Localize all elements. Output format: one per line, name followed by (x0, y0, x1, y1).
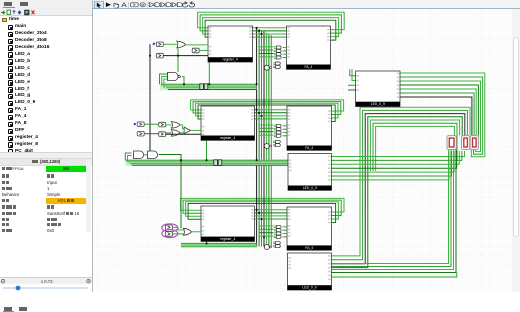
buffer U11 group2 (184, 127, 190, 134)
wire bundle: feedback loop group1 (FA_4 out back to register_4 in) (198, 12, 345, 40)
left project panel (0, 0, 93, 292)
wire bundle: feedback loop group3 (181, 198, 344, 222)
svg-text:register_4: register_4 (220, 237, 235, 241)
register R2 (201, 106, 255, 140)
OR gate U7 group1 (177, 41, 186, 48)
wire junctions (149, 27, 265, 244)
wire: AND chain output down to group3 (159, 155, 181, 229)
svg-text:FA_4: FA_4 (305, 146, 313, 150)
gate cluster group3 at FA inputs (273, 225, 286, 247)
wire: register R3 bottom to ribbon group3 (206, 241, 208, 243)
seven segment display DS3 (470, 136, 478, 150)
input pin P4b group2 outer (137, 131, 144, 136)
wire: outer pins to inner pins group2 (144, 124, 159, 134)
input pin P3 group1 with wire (192, 48, 208, 53)
AND gate U13 group2 (148, 151, 158, 159)
wire ribbon bus group2 (125, 153, 288, 166)
input pin P4 group2 (134, 122, 166, 127)
wire: pin P2 to register R1 (black) (163, 55, 208, 57)
svg-text:FA_4: FA_4 (305, 65, 313, 69)
schematic canvas (93, 9, 512, 292)
svg-text:register_4: register_4 (223, 58, 238, 62)
wires group2 gates (166, 125, 201, 134)
AND gate below cluster group2 (264, 144, 271, 149)
OR gate U14 group3 (183, 228, 191, 235)
wire: register R3 outputs to FA U6 inputs (255, 210, 288, 219)
NAND gate U8 group1 (168, 72, 181, 80)
wire: U12 to U13 (144, 154, 148, 156)
seven segment display DS1 (447, 136, 456, 150)
input pin P1 group1 (153, 42, 164, 47)
LED decoder U3 LED_0_9 (288, 253, 332, 290)
wire: cluster feeds group1 (259, 47, 274, 57)
register R3 (201, 206, 255, 241)
selected pin P7 group3 (purple halo) (162, 230, 178, 238)
wires group3 gates (172, 227, 201, 234)
wire: NAND U8 output to ribbon (182, 77, 184, 85)
svg-text:FA_4: FA_4 (305, 246, 313, 250)
svg-text:A: A (121, 1, 127, 9)
input pin P4a group2 outer (137, 122, 144, 127)
svg-text:LED_0_9: LED_0_9 (371, 102, 385, 106)
LED decoder U2 LED_0_9 (288, 154, 332, 191)
XOR gate U9 group2 (171, 122, 180, 129)
full adder U4 FA_4 (287, 26, 331, 69)
wire: LED U1 outputs to displays (400, 73, 485, 157)
gate cluster group2 at FA inputs (273, 124, 286, 146)
splitter S2 on ribbon group2 (214, 160, 222, 166)
input pin P2 group1 (156, 53, 163, 58)
svg-text:LED_0_9: LED_0_9 (302, 286, 316, 290)
wire: register R1 outputs to FA U4 inputs (253, 28, 287, 37)
svg-text:register_4: register_4 (220, 136, 235, 140)
wire: FA U4 to LED U1 inputs (348, 69, 356, 90)
wire: cluster feeds group2 (259, 125, 274, 135)
wire: cluster feeds group3 (259, 226, 274, 236)
XOR gate U10 group2 (171, 130, 180, 137)
wire: OR U7 output to register R1 (186, 44, 209, 46)
LED decoder U1 LED_0_9 (356, 71, 400, 107)
wire: register R2 outputs to FA U5 inputs (255, 110, 288, 119)
wire bundle: vertical bus column (257, 28, 272, 247)
wire ribbon bus group1 (160, 74, 257, 90)
wire ribbon bus group3 (181, 243, 257, 248)
full adder U5 FA_4 (287, 106, 332, 150)
canvas toolbar (93, 0, 520, 9)
wire: pin P1 to OR gate (163, 43, 177, 45)
selected pin P6 group3 (purple halo) (162, 224, 178, 232)
gate cluster group1 at FA inputs (273, 46, 286, 68)
input pin P5 group2 (159, 132, 166, 137)
wire bundle: feedback loop group2 (191, 100, 344, 122)
full adder U6 FA_4 (287, 207, 332, 250)
wire: vertical link group1 to group2 (149, 44, 151, 151)
AND gate below cluster group1 (264, 65, 271, 70)
wire: register R2 bottom to ribbon group2 (206, 140, 208, 160)
wire bundle: right vertical bus V2 with corners to displays (332, 107, 471, 267)
splitter S1 on ribbon group1 (200, 84, 208, 90)
wire bundle: LED U2 outputs right (332, 151, 465, 180)
seven segment display DS2 (462, 136, 470, 150)
svg-text:LED_0_9: LED_0_9 (303, 186, 317, 190)
AND gate U12 group2 (134, 151, 144, 159)
register R1 (208, 26, 253, 62)
wire: register R1 bottom to ribbon (208, 62, 210, 84)
wire: vertical below OR gate U7 (177, 48, 179, 72)
AND gate below cluster group3 (264, 245, 271, 250)
wire bundle: bottom corners V3 to LED U3 (332, 150, 457, 278)
